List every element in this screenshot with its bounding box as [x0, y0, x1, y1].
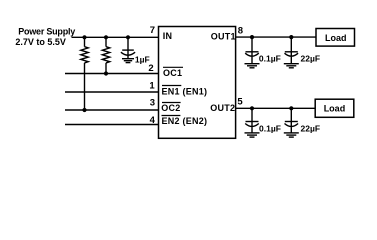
svg-text:22µF: 22µF	[301, 124, 321, 134]
svg-text:IN: IN	[163, 31, 173, 41]
svg-text:Load: Load	[325, 33, 347, 43]
svg-text:3: 3	[150, 98, 155, 109]
svg-text:EN1 (EN1): EN1 (EN1)	[162, 87, 208, 97]
svg-text:2: 2	[148, 63, 153, 74]
svg-text:4: 4	[150, 115, 156, 126]
svg-text:EN2 (EN2): EN2 (EN2)	[162, 116, 208, 126]
svg-text:OC1: OC1	[163, 68, 182, 78]
svg-text:OUT2: OUT2	[210, 103, 235, 113]
svg-text:1: 1	[149, 80, 155, 91]
svg-text:5: 5	[237, 97, 243, 108]
svg-text:0.1µF: 0.1µF	[259, 124, 281, 134]
svg-text:2.7V to 5.5V: 2.7V to 5.5V	[15, 37, 66, 47]
svg-text:Load: Load	[324, 104, 346, 114]
svg-text:22µF: 22µF	[301, 54, 321, 64]
svg-text:8: 8	[238, 25, 243, 36]
svg-text:0.1µF: 0.1µF	[259, 54, 281, 64]
svg-text:OC2: OC2	[161, 103, 180, 113]
svg-text:Power Supply: Power Supply	[18, 27, 75, 37]
svg-text:OUT1: OUT1	[211, 31, 236, 41]
svg-text:7: 7	[150, 25, 155, 36]
svg-text:1µF: 1µF	[135, 54, 150, 64]
